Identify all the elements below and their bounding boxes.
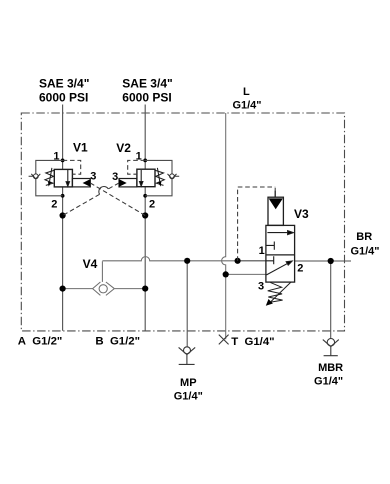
V1 feedback loop: [36, 160, 63, 195]
wire: MBR branch vertical: [330, 261, 332, 339]
wire: main horizontal line V4 to V3 port 1 with jump over B: [102, 257, 237, 261]
port T plug X symbol: [219, 335, 229, 345]
svg-text:G1/4": G1/4": [232, 99, 261, 111]
node: A pilot junction: [60, 212, 66, 218]
V2 pilot triangle: [119, 179, 127, 187]
V3 plunger triangle: [269, 198, 283, 209]
relief valve V2: [63, 141, 180, 216]
svg-text:2: 2: [297, 263, 303, 275]
node: B pilot junction: [142, 212, 148, 218]
svg-text:G1/4": G1/4": [314, 376, 343, 388]
node: MBR/BR junction: [328, 258, 334, 264]
V1 pilot triangle: [83, 179, 91, 187]
V1 remote pilot dashed diagonal to B: [90, 183, 145, 216]
V2 pilot sense dashed line: [128, 160, 146, 174]
svg-text:2: 2: [149, 199, 155, 211]
svg-text:L: L: [243, 86, 250, 98]
V3 top position blocked port T-mark: [266, 242, 274, 250]
svg-text:SAE 3/4": SAE 3/4": [122, 77, 172, 91]
svg-text:3: 3: [258, 281, 264, 293]
V2 remote pilot dashed diagonal to A with jump: [63, 183, 119, 216]
svg-text:3: 3: [112, 171, 118, 183]
port MP test-point symbol: [179, 347, 196, 365]
node: B at V2 loop bottom: [143, 194, 147, 198]
sequence valve V3: [238, 187, 309, 306]
V3 pilot plunger box: [268, 191, 283, 226]
svg-text:2: 2: [51, 199, 57, 211]
svg-text:MP: MP: [180, 377, 197, 389]
node: V3 pilot branch junction: [235, 258, 241, 264]
wire: V4 output stub: [101, 261, 103, 282]
V2 spool arrow: [140, 170, 143, 186]
svg-text:G1/4": G1/4": [350, 246, 379, 258]
V1 main spool box: [54, 169, 72, 187]
node: A at V1 loop top: [61, 159, 65, 163]
V1 spring with adjustment arrow: [45, 168, 54, 186]
V3 top position flow arrow: [267, 231, 293, 235]
V1 vent symbol: [29, 174, 41, 179]
V2 spring with adjustment arrow: [155, 168, 164, 186]
svg-text:V2: V2: [116, 141, 131, 155]
svg-text:6000 PSI: 6000 PSI: [39, 91, 88, 105]
wire: L/T vertical line with jump over main horizontal: [222, 113, 226, 339]
svg-text:V3: V3: [294, 207, 309, 221]
node: B at V2 loop top: [143, 159, 147, 163]
V2 vent symbol: [168, 174, 180, 179]
V2 pilot line jump arc over V1 pilot line: [99, 186, 108, 194]
V1 pilot stage box: [72, 179, 90, 187]
V4 diamond body: [93, 282, 115, 295]
wire: port 3 branch line (L to V3): [226, 273, 267, 275]
node: A at V1 loop bottom: [61, 194, 65, 198]
node: A at V4 row: [60, 286, 66, 292]
V1 pilot sense dashed line: [63, 160, 81, 174]
enclosure dash-dot border: [21, 113, 344, 331]
junction dots: [60, 159, 334, 292]
wire: V4 row A to B: [63, 288, 146, 290]
svg-text:B G1/2": B G1/2": [95, 335, 140, 347]
node: MP branch junction: [184, 258, 190, 264]
svg-text:V4: V4: [83, 257, 98, 271]
V2 feedback loop: [145, 160, 172, 195]
V3 plunger stub: [274, 188, 276, 191]
V3 spring: [268, 282, 283, 302]
V3 bottom position diagonal flow path: [267, 261, 293, 275]
svg-text:V1: V1: [73, 141, 88, 155]
node: L to port3 junction: [223, 271, 229, 277]
svg-text:G1/4": G1/4": [174, 391, 203, 403]
V3 spring adjustment arrow: [271, 282, 291, 301]
V4 ball circle: [99, 285, 107, 293]
svg-text:T G1/4": T G1/4": [231, 336, 274, 348]
node: B at V4 row: [142, 286, 148, 292]
relief valve V1: [29, 141, 146, 216]
V3 main body: [266, 225, 295, 282]
shuttle valve V4: [83, 257, 115, 296]
V2 main spool box: [137, 169, 155, 187]
port MBR test-point symbol: [323, 339, 339, 356]
svg-text:1: 1: [259, 245, 265, 257]
svg-text:MBR: MBR: [318, 362, 343, 374]
svg-text:SAE 3/4": SAE 3/4": [39, 77, 89, 91]
svg-text:BR: BR: [356, 231, 372, 243]
V3 pilot dashed line: [238, 187, 276, 261]
wire: port B vertical line: [144, 105, 146, 331]
wire: MP branch vertical: [186, 261, 188, 347]
V2 pilot stage box: [119, 179, 137, 187]
wire: port A vertical line: [62, 105, 64, 331]
svg-text:3: 3: [90, 170, 96, 182]
svg-text:A G1/2": A G1/2": [18, 335, 63, 347]
V1 spool arrow: [66, 170, 69, 186]
wire: V3 port 1 line: [238, 260, 266, 262]
svg-text:6000 PSI: 6000 PSI: [122, 91, 171, 105]
wire: BR horizontal line from V3 port 2: [295, 260, 351, 262]
V3 bottom position blocked port T-mark: [266, 256, 274, 264]
